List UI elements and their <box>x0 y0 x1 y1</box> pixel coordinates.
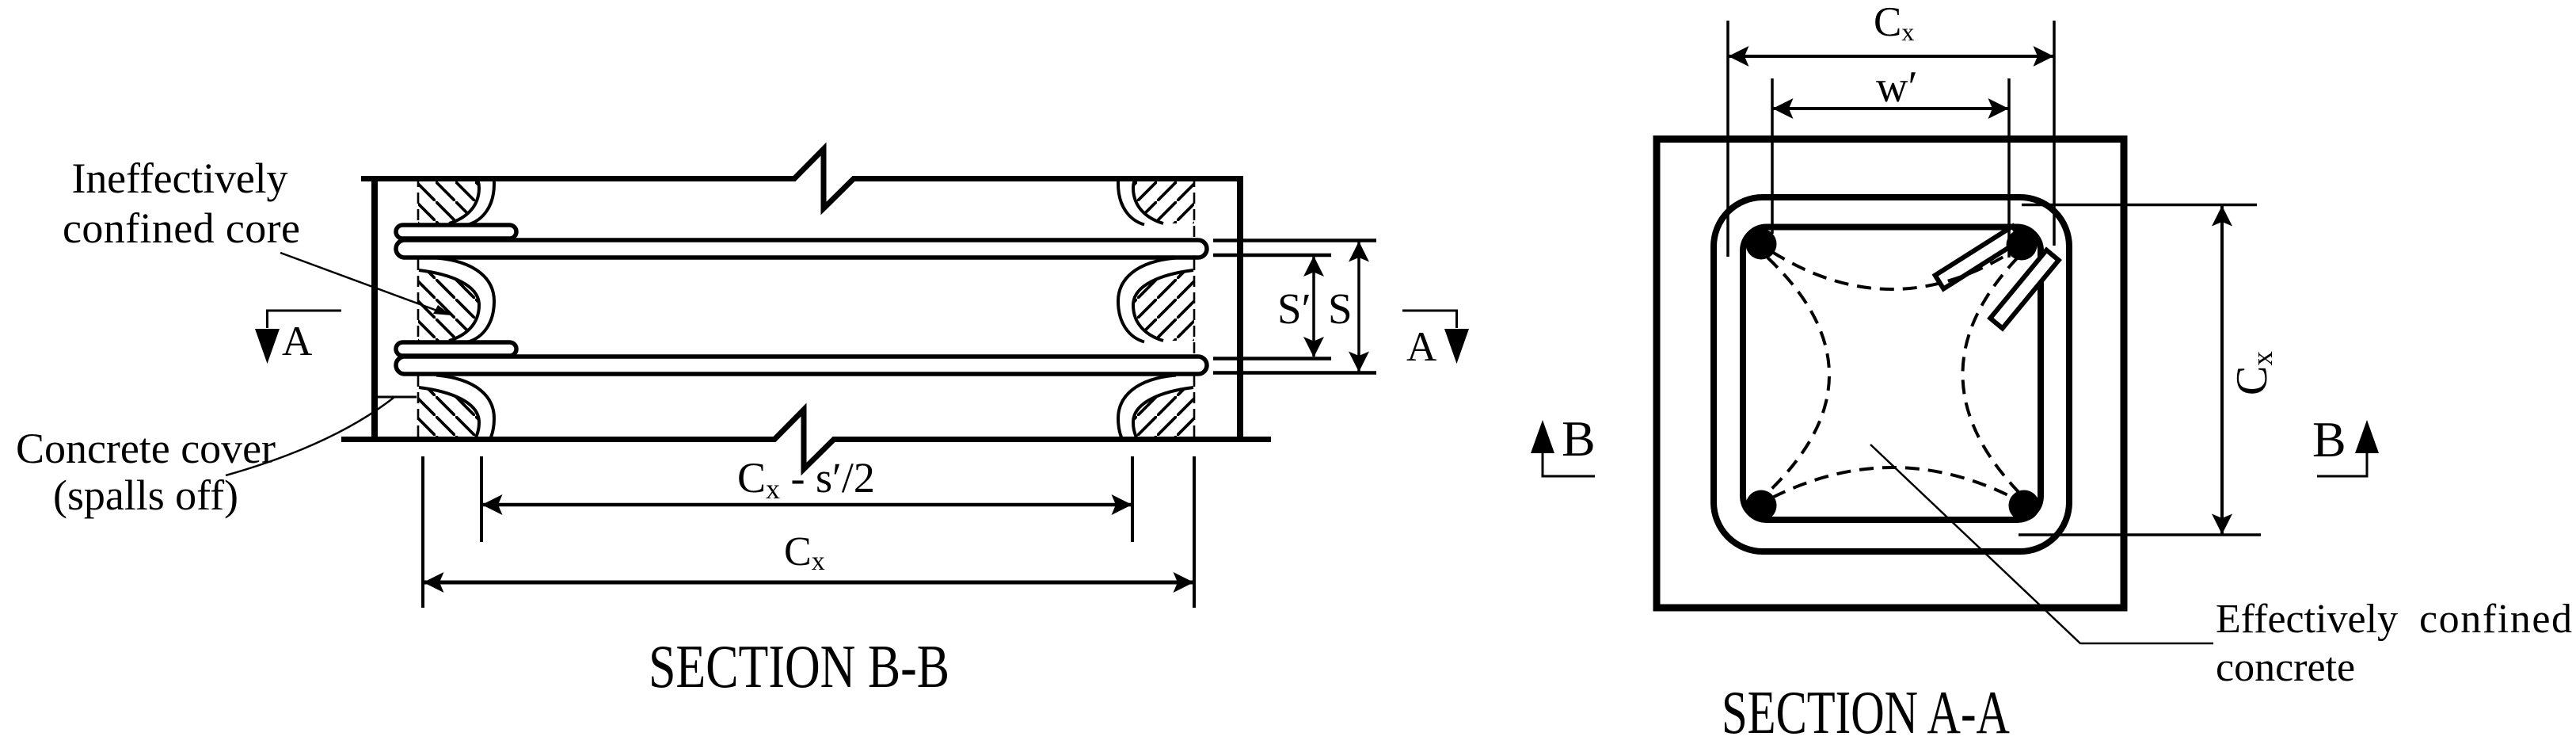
svg-text:Concrete cover: Concrete cover <box>16 425 276 472</box>
svg-text:concrete: concrete <box>2216 645 2355 690</box>
svg-text:confined core: confined core <box>63 204 300 252</box>
svg-text:Ineffectively: Ineffectively <box>72 155 288 202</box>
svg-text:Effectively: Effectively <box>2216 597 2398 642</box>
svg-text:SECTION B-B: SECTION B-B <box>649 632 949 700</box>
svg-text:w′: w′ <box>1876 63 1918 112</box>
svg-text:S′: S′ <box>1277 284 1311 333</box>
svg-text:SECTION A-A: SECTION A-A <box>1722 678 2010 744</box>
svg-text:A: A <box>1406 324 1436 370</box>
svg-text:B: B <box>1562 410 1596 467</box>
svg-text:confined: confined <box>2419 597 2572 642</box>
svg-text:B: B <box>2312 411 2346 467</box>
svg-text:A: A <box>282 319 312 364</box>
svg-text:(spalls off): (spalls off) <box>53 471 238 519</box>
svg-text:S: S <box>1328 284 1353 333</box>
svg-text:Cx - s′/2: Cx - s′/2 <box>737 454 875 505</box>
